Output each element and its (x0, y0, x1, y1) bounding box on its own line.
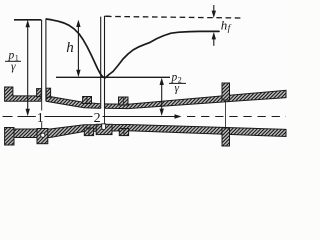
piezometer tube 2 bore (100, 16, 105, 109)
centerline dashed part (187, 116, 286, 118)
p2/gamma dimension arrow (161, 83, 163, 112)
boss left of tube 1 (37, 89, 42, 97)
centerline solid part (3, 116, 179, 118)
throat inlet flange pair bottom (84, 128, 93, 136)
svg-text:h: h (66, 40, 74, 56)
tube 1 left wall (41, 20, 43, 102)
svg-text:p: p (171, 71, 178, 83)
tube 1 right wall (45, 19, 47, 101)
throat outlet flange pair top (119, 97, 129, 105)
drain hole section 1 (41, 133, 45, 137)
pipe top wall left section with flange (5, 87, 42, 101)
diffuser flange bottom (222, 128, 230, 146)
section 2 line through pipe (104, 108, 106, 124)
pipe top wall diffuser section (105, 90, 286, 108)
pipe top wall converging section (46, 96, 100, 108)
svg-text:γ: γ (175, 83, 180, 95)
section label 2 (93, 111, 102, 123)
pipe bottom wall (14, 125, 286, 138)
svg-text:1: 1 (37, 111, 44, 126)
hydraulic grade line descending curve (46, 19, 103, 77)
water level line 2 (56, 76, 170, 78)
section 1 line upper part (41, 101, 43, 110)
bottom drain boss at section 1 (37, 129, 48, 144)
drain notch section 2 (102, 124, 106, 130)
section 1 line lower part (41, 122, 43, 129)
diffuser flange top (222, 83, 230, 100)
throat outlet flange pair bottom (119, 129, 128, 136)
throat inlet flange pair top (83, 97, 92, 104)
ideal energy line dashed (106, 16, 242, 18)
hf upper arrow (213, 5, 215, 13)
diffuser joint line (225, 100, 227, 128)
svg-text:2: 2 (94, 111, 101, 126)
hydraulic grade line rising curve (105, 31, 219, 77)
svg-text:γ: γ (11, 61, 16, 73)
tube 2 right wall (104, 16, 106, 108)
piezometer tube 1 bore (41, 19, 46, 102)
flow arrowhead (175, 114, 182, 118)
tube 2 top tick (105, 15, 111, 17)
hf lower arrow (213, 39, 215, 46)
bottom boss at section 2 (96, 124, 112, 134)
svg-text:h: h (221, 18, 228, 33)
tube 2 left wall (100, 17, 102, 109)
boss right of tube 1 (46, 88, 50, 97)
water level line 1 (14, 19, 41, 21)
bottom left flange (5, 128, 14, 146)
svg-text:p: p (8, 50, 15, 62)
h dimension arrow (77, 25, 79, 72)
section label 1 (36, 111, 45, 123)
p1/gamma dimension arrow (27, 25, 29, 111)
